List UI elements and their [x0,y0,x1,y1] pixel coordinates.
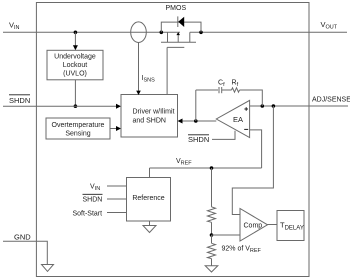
wire reference to ground [149,221,151,226]
svg-text:Comp: Comp [244,223,263,230]
transistor PMOS channel [167,32,169,42]
comparator Comp [240,209,268,242]
svg-text:Overtemperature: Overtemperature [52,122,105,129]
wire reference input soft-start stub [107,212,127,214]
wire R2 to ground [211,259,213,266]
svg-text:Reference: Reference [132,195,164,202]
svg-text:SHDN: SHDN [83,197,103,204]
node divider mid (dot) [210,233,214,237]
ground symbol below reference [143,226,156,233]
resistor R2 divider lower [208,243,216,258]
node PMOS right (dot) [199,31,203,35]
EA minus sign [244,128,248,130]
svg-text:VREF: VREF [176,158,192,167]
node EA output (dot) [194,119,198,123]
wire reference input VIN stub [107,185,127,187]
svg-text:PMOS: PMOS [166,5,187,12]
PMOS gate bar [167,46,184,48]
wire divider top [211,168,213,207]
svg-text:and SHDN: and SHDN [133,118,166,125]
resistor R1 divider upper [208,207,216,222]
svg-text:VIN: VIN [9,21,20,32]
wire feedback left riser [195,90,197,121]
wire GND pin [3,241,47,264]
chip boundary box [36,3,309,277]
svg-text:ADJ/SENSE: ADJ/SENSE [312,97,350,104]
wire comp output [267,224,277,226]
EA plus sign [244,108,248,110]
node divider tap (dot) [272,104,276,108]
block TDELAY [277,211,304,241]
wire SHDN pin [3,105,117,107]
wire EA minus input [250,130,262,168]
resistor Rf [232,88,240,92]
capacitor Cf [218,87,220,93]
svg-text:VIN: VIN [90,184,100,193]
node VREF divider tap (dot) [210,166,214,170]
wire comp lower input [212,234,241,236]
svg-text:Driver w/Ilimit: Driver w/Ilimit [133,109,175,116]
wire divider middle [211,222,213,235]
wire reference input SHDN stub [107,198,127,200]
wire PMOS gate to driver [166,47,168,94]
wire divider lower [211,235,213,243]
wire VIN to UVLO [74,32,76,46]
wire VIN-VOUT rail left [3,31,180,33]
node PMOS left (dot) [160,31,164,35]
svg-text:Soft-Start: Soft-Start [73,211,103,218]
wire divider tap to comp upper input [232,106,273,215]
wire cap to resistor [222,89,232,91]
svg-text:92% of VREF: 92% of VREF [222,246,262,255]
svg-text:VOUT: VOUT [321,20,338,31]
block reference [127,178,171,222]
svg-text:Sensing: Sensing [65,131,90,138]
wire VREF rail [150,167,262,169]
svg-text:Cf: Cf [218,80,225,89]
svg-text:ISNS: ISNS [142,75,156,84]
ground symbol GND pin [42,265,54,272]
svg-text:Undervoltage: Undervoltage [54,54,96,61]
svg-text:SHDN: SHDN [188,135,209,144]
svg-text:TDELAY: TDELAY [280,221,304,232]
op-amp EA [216,100,249,137]
current sense ellipse [131,22,147,43]
svg-text:EA: EA [233,115,243,124]
block overtemperature sensing [46,118,110,139]
wire VIN-VOUT rail right [190,31,347,33]
wire body-diode loop [161,22,201,32]
block driver [121,95,178,138]
node feedback tap (dot) [261,104,265,108]
wire feedback top right [240,90,263,106]
node SHDN junction (dot) [74,104,78,108]
ground symbol below divider [205,266,218,272]
PMOS body arrow [177,35,179,43]
svg-text:GND: GND [14,233,31,242]
wire EA output [182,120,217,122]
wire ISNS [138,43,140,91]
node VIN tap (dot) [74,31,78,35]
svg-text:(UVLO): (UVLO) [63,71,87,78]
wire SHDN to EA [212,131,235,140]
wire feedback top left [196,89,218,91]
svg-text:SHDN: SHDN [9,96,30,105]
wire UVLO to SHDN node [74,80,76,106]
wire VREF riser from reference [149,168,151,178]
body diode of PMOS [177,16,179,27]
svg-text:Lockout: Lockout [63,62,88,69]
wire ADJ/SENSE [250,105,348,107]
wire overtemp to driver [110,128,117,130]
block UVLO [47,50,103,80]
